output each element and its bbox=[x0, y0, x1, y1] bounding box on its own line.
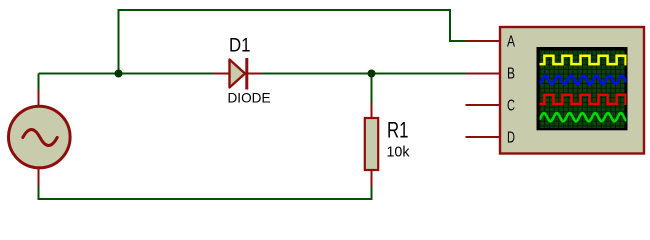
svg-text:D: D bbox=[507, 129, 515, 146]
svg-text:R1: R1 bbox=[387, 118, 409, 143]
svg-text:C: C bbox=[507, 97, 515, 114]
svg-text:B: B bbox=[507, 65, 515, 82]
svg-text:A: A bbox=[507, 33, 516, 50]
svg-text:DIODE: DIODE bbox=[228, 90, 271, 106]
svg-text:D1: D1 bbox=[229, 35, 251, 57]
svg-text:10k: 10k bbox=[387, 144, 410, 161]
